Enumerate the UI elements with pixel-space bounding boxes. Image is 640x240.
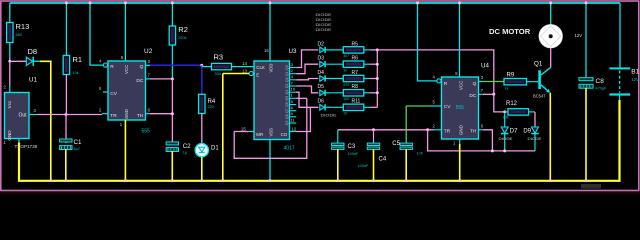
wire: R2 bottom lead xyxy=(171,45,173,79)
wire: Q2 to D4 xyxy=(296,79,318,80)
wire: C3 to ground bus xyxy=(337,149,339,180)
wire: Q4 to D6 xyxy=(296,92,318,107)
junction: D1 on ground bus xyxy=(200,179,203,182)
wire: R4 to D1 xyxy=(201,114,203,144)
node: Q/R3/R4 junction xyxy=(200,64,203,67)
svg-text:Q6: Q6 xyxy=(285,102,289,107)
wire: bus corner to battery + xyxy=(619,3,621,67)
wire: TH down to lower loop xyxy=(483,130,492,151)
junction: U3 VSS on ground bus xyxy=(269,179,272,182)
wire: R6 right lead xyxy=(364,63,370,65)
wire: battery - lead xyxy=(619,96,621,100)
svg-text:D2: D2 xyxy=(318,41,325,47)
wire: bus to U2 VCC pin 8 xyxy=(124,3,126,61)
wire: R3 to U3 CLK pin 14 xyxy=(232,66,255,68)
pin lead: U4 DC pin 7 xyxy=(479,93,484,95)
svg-text:1k: 1k xyxy=(505,87,509,91)
wire: R12 right lead xyxy=(529,111,536,113)
svg-text:D5: D5 xyxy=(318,84,325,90)
pin lead: U1 Out pin 3 xyxy=(29,114,37,116)
svg-text:16: 16 xyxy=(264,48,269,53)
svg-text:1k: 1k xyxy=(343,69,347,73)
wire: D8 cathode lead xyxy=(34,60,41,62)
junction: C4 on ground bus xyxy=(372,179,375,182)
svg-text:100nF: 100nF xyxy=(348,152,359,156)
wire: U3 E to ground riser xyxy=(223,73,249,75)
wire: R8 right lead xyxy=(364,92,370,94)
svg-text:R6: R6 xyxy=(352,56,359,62)
wire: down to C4 xyxy=(373,130,375,143)
svg-text:C1: C1 xyxy=(74,139,82,146)
wire: R5 right lead xyxy=(364,49,370,51)
svg-text:Q1: Q1 xyxy=(285,71,289,76)
resistor R7 xyxy=(343,75,364,81)
svg-text:C8: C8 xyxy=(596,78,605,85)
wire: U2 Q to R3 (blue) xyxy=(150,64,202,66)
wire: C8 to ground bus xyxy=(585,88,587,180)
svg-text:10k: 10k xyxy=(503,116,509,120)
wire: bus to U4 R pin 4 xyxy=(418,3,437,81)
svg-text:BC547: BC547 xyxy=(533,94,546,99)
pin lead: U3 MR pin 15 xyxy=(248,131,254,133)
svg-text:1nF: 1nF xyxy=(417,152,424,156)
junction: summing bus y=64.2 xyxy=(376,63,379,66)
wire: R12 to D9 xyxy=(534,112,536,127)
wire: summing bus to U4 DC node xyxy=(377,50,494,94)
junction: summing bus y=49.9 xyxy=(376,48,379,51)
junction: TH on lower loop xyxy=(491,149,494,152)
wire: R2 node down to C2 xyxy=(171,79,173,142)
svg-text:R4: R4 xyxy=(208,99,216,105)
svg-text:12V: 12V xyxy=(631,77,639,82)
IC U2 555 xyxy=(108,61,146,120)
wire: R1 bottom to Out net xyxy=(65,75,67,115)
resistor R3 xyxy=(212,63,232,69)
wire: ground bottom bus xyxy=(19,100,620,181)
diode D7 xyxy=(501,127,509,134)
svg-text:CLK: CLK xyxy=(256,65,265,70)
svg-text:DC: DC xyxy=(469,93,476,99)
diode D9 xyxy=(531,127,539,134)
pin lead: U3 Q0 pin 3 xyxy=(290,67,297,69)
svg-text:C3: C3 xyxy=(348,144,356,150)
svg-text:12: 12 xyxy=(292,126,297,131)
svg-text:CO: CO xyxy=(281,132,288,137)
wire: bus to R1 top xyxy=(65,3,67,56)
wire: D8 to ground bus xyxy=(40,61,51,180)
svg-text:Q5: Q5 xyxy=(285,96,289,101)
wire: D6 cathode to R11 xyxy=(325,106,343,108)
diode D2 xyxy=(320,47,325,53)
wire: green to U4 CV xyxy=(406,105,429,107)
svg-text:TH: TH xyxy=(137,113,144,119)
svg-text:VCC: VCC xyxy=(124,65,129,74)
resistor R11 xyxy=(343,104,364,110)
svg-text:D6: D6 xyxy=(318,99,325,105)
wire: U4 GND to ground bus xyxy=(459,144,461,180)
wire: R7 right lead xyxy=(364,78,370,80)
diode D5 xyxy=(320,90,325,96)
svg-text:VDD: VDD xyxy=(269,64,274,73)
wire: R13 to node xyxy=(9,58,11,61)
svg-text:470: 470 xyxy=(343,83,349,87)
wire: D3 cathode to R6 xyxy=(325,63,343,65)
svg-text:R3: R3 xyxy=(214,52,224,61)
svg-text:DIODE: DIODE xyxy=(321,113,337,118)
svg-text:100: 100 xyxy=(343,97,349,101)
svg-text:10: 10 xyxy=(291,87,296,92)
svg-text:U2: U2 xyxy=(144,48,153,55)
svg-text:TH: TH xyxy=(470,129,477,135)
wire: R11 to summing bus xyxy=(370,106,377,108)
svg-text:Out: Out xyxy=(18,113,27,119)
junction: motor on supply bus xyxy=(549,2,552,5)
svg-text:R9: R9 xyxy=(507,73,515,79)
node: R13/D8/U1-Vcc junction xyxy=(8,60,11,63)
junction: U4 GND on ground bus xyxy=(458,179,461,182)
svg-text:R8: R8 xyxy=(352,84,359,90)
resistor R5 xyxy=(343,47,364,53)
svg-text:CV: CV xyxy=(110,91,117,97)
junction: C8 on supply bus xyxy=(585,2,588,5)
pin lead: U4 GND pin 1 xyxy=(459,139,461,144)
svg-text:220k: 220k xyxy=(178,36,186,40)
junction: D7 on lower loop xyxy=(503,149,506,152)
wire: node to U1 Vcc xyxy=(9,61,11,85)
wire: R13 bottom lead xyxy=(9,43,11,59)
svg-text:Vcc: Vcc xyxy=(7,100,12,108)
junction: U2 reset riser on supply bus xyxy=(89,2,92,5)
svg-text:C4: C4 xyxy=(379,156,387,162)
wire: bus to U4 VCC pin 8 xyxy=(459,3,461,77)
junction: D8 wire on ground bus xyxy=(49,179,52,182)
svg-text:R1: R1 xyxy=(73,55,83,64)
svg-text:C2: C2 xyxy=(183,143,191,150)
wire: C5 top lead (green) xyxy=(405,106,407,143)
svg-text:CV: CV xyxy=(444,104,451,110)
watermark blob xyxy=(581,184,601,189)
svg-text:U4: U4 xyxy=(481,63,489,70)
svg-text:GND: GND xyxy=(7,130,12,141)
wire: Q3 to D5 xyxy=(296,86,318,93)
junction: C1 on ground bus xyxy=(64,179,67,182)
pin lead: U1 GND pin 1 xyxy=(18,139,20,143)
wire: bus to motor xyxy=(550,3,552,24)
wire: Q0 to D2 xyxy=(296,50,318,68)
svg-text:R13: R13 xyxy=(16,22,30,31)
pin lead: U4 Q pin 3 xyxy=(479,81,484,83)
diode D3 xyxy=(320,61,325,67)
capacitor C2 xyxy=(166,142,178,152)
junction: C8 on ground bus xyxy=(585,179,588,182)
svg-text:DC MOTOR: DC MOTOR xyxy=(489,27,531,36)
wire: bus to C8 xyxy=(585,3,587,77)
node: TH/C2 junction xyxy=(171,112,174,115)
IC U3 4017 xyxy=(254,61,290,140)
svg-text:DC: DC xyxy=(136,78,143,84)
diode D4 xyxy=(320,75,325,81)
svg-text:E: E xyxy=(256,72,259,77)
pin lead: U2 DC pin 7 xyxy=(146,78,151,80)
svg-text:680: 680 xyxy=(16,33,22,37)
svg-text:220: 220 xyxy=(208,105,214,109)
wire: U2 DC to R2 node xyxy=(150,78,172,80)
svg-text:4017: 4017 xyxy=(284,145,295,151)
wire: MR reset loop to Q5 xyxy=(234,98,307,158)
diode D6 xyxy=(320,104,325,110)
wire: Q1 to D3 xyxy=(296,64,318,74)
svg-text:Q9: Q9 xyxy=(285,120,289,125)
svg-text:R5: R5 xyxy=(352,41,359,47)
svg-text:VSS: VSS xyxy=(269,128,274,137)
wire: MR lead xyxy=(234,131,248,133)
svg-text:D1: D1 xyxy=(211,146,219,152)
svg-text:R: R xyxy=(444,81,448,87)
svg-text:4k7: 4k7 xyxy=(343,54,349,58)
junction: U4 Vcc on supply bus xyxy=(458,2,461,5)
capacitor C5 xyxy=(400,143,412,149)
resistor R9 xyxy=(504,79,527,85)
pin lead: U3 Q1 pin 2 xyxy=(290,73,297,75)
svg-text:Q3: Q3 xyxy=(285,83,289,88)
svg-text:U3: U3 xyxy=(289,48,297,55)
wire: U2 GND to ground bus xyxy=(124,120,126,180)
svg-text:Q1: Q1 xyxy=(534,60,543,67)
wire: Q1 emitter to ground bus xyxy=(549,93,551,180)
junction: summing bus y=78.5 xyxy=(376,77,379,80)
svg-text:Q8: Q8 xyxy=(285,114,289,119)
wire: node to R3 body xyxy=(202,66,212,68)
pin lead: U3 Q4 pin 10 xyxy=(290,91,297,93)
svg-text:DIODE: DIODE xyxy=(499,137,514,141)
junction: U2 GND on ground bus xyxy=(124,179,127,182)
pin lead: U2 TR pin 2 xyxy=(102,113,108,115)
wire: U3 VSS to ground bus xyxy=(269,140,271,181)
wire: resistor summing bus xyxy=(376,50,378,107)
diode D8 xyxy=(26,57,33,66)
svg-text:555: 555 xyxy=(456,105,465,111)
wire: C4 to ground bus xyxy=(373,149,375,180)
pin lead: U3 Q2 pin 4 xyxy=(290,79,297,81)
wire: C2 to ground bus xyxy=(171,151,173,180)
bubble: U2 R pin 4 xyxy=(103,63,107,67)
wire: bus to R13 top xyxy=(9,3,11,23)
wire: R7 to summing bus xyxy=(370,78,377,80)
pin lead: U1 Vcc pin 2 xyxy=(9,86,11,93)
IC U1 TSOP1738 xyxy=(5,93,30,139)
svg-text:R7: R7 xyxy=(352,70,359,76)
LED D1 xyxy=(195,144,208,157)
pin lead: U4 CV pin 5 xyxy=(429,105,442,107)
svg-text:Q0: Q0 xyxy=(285,65,289,70)
wire: DC lead xyxy=(483,93,494,95)
wire: node to D8 anode xyxy=(10,60,27,62)
svg-text:GND: GND xyxy=(124,109,129,119)
node: DC/summing junction xyxy=(492,93,495,96)
wire: C1 to ground bus xyxy=(65,149,67,180)
wire: R9 to Q1 base xyxy=(527,81,539,83)
svg-text:10: 10 xyxy=(343,112,347,116)
svg-text:12V: 12V xyxy=(575,33,583,38)
node: Out/R1/C1 junction xyxy=(65,113,68,116)
junction: R1 on supply bus xyxy=(65,2,68,5)
IC U4 555 xyxy=(442,77,479,139)
junction: C3 on ground bus xyxy=(336,179,339,182)
junction: U2 Vcc on supply bus xyxy=(124,2,127,5)
transistor Q1 BC547 xyxy=(538,67,550,92)
svg-text:10k: 10k xyxy=(73,71,79,75)
border frame xyxy=(1,1,639,191)
wire: DC node to R12/D7 node xyxy=(494,94,505,112)
svg-text:TR: TR xyxy=(110,113,117,119)
svg-text:D3: D3 xyxy=(318,56,325,62)
svg-text:D8: D8 xyxy=(28,47,38,56)
capacitor C8 xyxy=(579,78,593,89)
wire: bus to U3 VDD pin 16 xyxy=(269,3,271,61)
pin lead: U4 TH pin 6 xyxy=(479,129,484,131)
battery B1 xyxy=(609,67,630,95)
resistor R4 xyxy=(199,94,205,113)
junction: summing bus y=92.8 xyxy=(376,91,379,94)
svg-text:TR: TR xyxy=(444,129,451,135)
svg-text:R: R xyxy=(110,64,114,70)
svg-text:Q4: Q4 xyxy=(285,90,289,95)
resistor R13 xyxy=(7,23,13,43)
wire: U1 Out to U2 TR xyxy=(37,114,102,116)
svg-text:R11: R11 xyxy=(352,99,361,105)
junction: C2 on ground bus xyxy=(171,179,174,182)
bubble: U4 R pin 4 xyxy=(437,79,441,83)
svg-text:Q: Q xyxy=(473,81,477,87)
junction: R2 on supply bus xyxy=(171,2,174,5)
svg-text:Q2: Q2 xyxy=(285,77,289,82)
svg-text:TSOP1738: TSOP1738 xyxy=(15,144,38,149)
svg-text:GND: GND xyxy=(458,125,463,135)
wire: timing node line to U4 TR xyxy=(338,129,434,131)
capacitor C1 xyxy=(60,139,72,150)
svg-text:555: 555 xyxy=(142,128,151,134)
wire: lower loop to D7/D9 xyxy=(428,130,535,151)
pin lead: U4 TR pin 2 xyxy=(434,129,442,131)
wire: U2 TH to C2 node xyxy=(150,113,172,115)
pin lead: U3 Q7 pin 6 xyxy=(290,110,297,112)
node: TR line to discharge loop xyxy=(426,128,429,131)
wire: node to D7 xyxy=(504,114,506,128)
wire: D5 cathode to R8 xyxy=(325,92,343,94)
pin lead: U3 CO pin 12 xyxy=(290,131,297,133)
pin lead: U2 TH pin 6 xyxy=(146,113,151,115)
svg-text:D7: D7 xyxy=(510,129,518,135)
wire: E ground riser xyxy=(222,74,224,181)
node: R12/D7 junction xyxy=(503,110,506,113)
svg-text:330: 330 xyxy=(215,72,221,76)
wire: R8 to summing bus xyxy=(370,92,377,94)
pin lead: U3 Q6 pin 5 xyxy=(290,104,297,106)
junction: U4 reset riser on supply bus xyxy=(416,2,419,5)
svg-text:4µ7: 4µ7 xyxy=(74,147,80,151)
junction: E riser on ground bus xyxy=(221,179,224,182)
wire: node to R12 xyxy=(505,111,508,113)
bubble: U3 E pin 13 xyxy=(249,71,253,75)
svg-text:D4: D4 xyxy=(318,70,325,76)
junction: emitter on ground bus xyxy=(549,179,552,182)
wire: D7 cathode down xyxy=(504,134,506,151)
svg-text:R12: R12 xyxy=(506,101,518,107)
wire: R11 right lead xyxy=(364,106,370,108)
wire: +12V top supply bus xyxy=(10,2,620,4)
capacitor C4 xyxy=(367,143,379,149)
wire: R5 to summing bus xyxy=(370,49,377,51)
resistor R8 xyxy=(343,90,364,96)
wire: D9 cathode down xyxy=(534,134,536,151)
wire: Q5 to MR loop xyxy=(296,97,307,99)
resistor R2 xyxy=(169,26,175,45)
resistor R12 xyxy=(508,109,529,115)
junction: C5 on ground bus xyxy=(405,179,408,182)
wire: U4 Q to R9 (green) xyxy=(483,81,504,83)
pin lead: U3 Q3 pin 7 xyxy=(290,85,297,87)
svg-text:R2: R2 xyxy=(178,25,188,34)
pin lead: U3 Q9 pin 11 xyxy=(290,122,297,124)
wire: bus to U2 R pin 4 xyxy=(90,3,103,65)
svg-text:14: 14 xyxy=(242,61,247,66)
node: C4 on timing line xyxy=(372,128,375,131)
svg-text:DIODE: DIODE xyxy=(316,27,332,32)
wire: D1 to ground bus xyxy=(201,157,203,180)
svg-text:MR: MR xyxy=(256,132,263,137)
svg-text:470µF: 470µF xyxy=(596,87,608,91)
wire: Out net down to C1 xyxy=(65,115,67,144)
svg-text:Q7: Q7 xyxy=(285,108,289,113)
svg-text:C5: C5 xyxy=(392,141,400,147)
resistor R6 xyxy=(343,61,364,67)
svg-text:VCC: VCC xyxy=(458,81,463,90)
svg-text:B1: B1 xyxy=(631,69,639,76)
pin lead: U2 Q pin 3 xyxy=(146,64,151,66)
wire: Q node down to R4 (blue) xyxy=(201,65,203,94)
pin lead: U3 Q8 pin 9 xyxy=(290,116,297,118)
wire: down to C3 xyxy=(337,130,339,143)
wire: Q1 collector to motor xyxy=(550,48,552,67)
wire: D2 cathode to R5 xyxy=(325,49,343,51)
node: DC/R2 junction xyxy=(171,77,174,80)
wire: D4 cathode to R7 xyxy=(325,78,343,80)
motor M1 DC MOTOR xyxy=(539,24,563,48)
resistor R1 xyxy=(63,56,69,75)
wire: bus to R2 top xyxy=(171,3,173,26)
junction: U3 VDD on supply bus xyxy=(269,2,272,5)
pin lead: U2 CV pin 5 xyxy=(103,91,108,93)
wire: CO stub xyxy=(296,107,310,131)
pin lead: U3 Q5 pin 1 xyxy=(290,97,297,99)
wire: C5 to ground bus xyxy=(405,149,407,180)
svg-text:U1: U1 xyxy=(29,77,37,84)
svg-text:100nF: 100nF xyxy=(358,164,369,168)
svg-text:15: 15 xyxy=(241,126,246,131)
capacitor C3 xyxy=(332,143,344,149)
wire: R6 to summing bus xyxy=(370,63,377,65)
svg-text:D9: D9 xyxy=(523,129,531,135)
svg-text:Q: Q xyxy=(140,64,144,70)
